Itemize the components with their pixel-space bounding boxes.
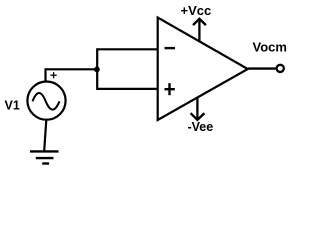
svg-text:Vocm: Vocm	[253, 39, 287, 54]
svg-text:V1: V1	[5, 99, 20, 113]
svg-text:-Vee: -Vee	[188, 120, 214, 134]
svg-text:+Vcc: +Vcc	[181, 3, 212, 18]
